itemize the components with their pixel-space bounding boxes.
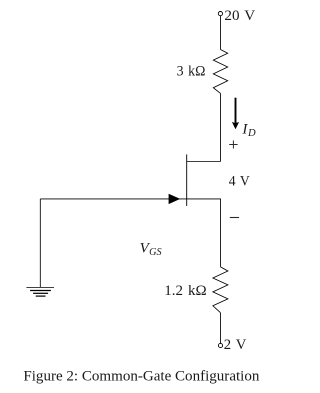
wire left drop bbox=[39, 199, 41, 287]
svg-text:3 kΩ: 3 kΩ bbox=[177, 64, 206, 80]
wire bottom bbox=[220, 313, 222, 344]
svg-text:20 V: 20 V bbox=[224, 8, 255, 24]
transistor Q1 bar bbox=[186, 154, 188, 206]
svg-text:Figure 2: Common-Gate Configur: Figure 2: Common-Gate Configuration bbox=[23, 368, 259, 384]
terminal 20 V bbox=[218, 12, 222, 16]
wire top rail bbox=[220, 16, 222, 50]
wire resistor to drain elbow bbox=[220, 93, 222, 161]
minus sign bbox=[230, 217, 239, 219]
resistor R2 1.2k bbox=[213, 267, 228, 313]
resistor R1 3k bbox=[213, 50, 227, 94]
gate arrow bbox=[169, 194, 181, 204]
wire drain elbow bbox=[187, 161, 221, 163]
svg-text:1.2 kΩ: 1.2 kΩ bbox=[164, 283, 206, 299]
wire gate bbox=[40, 198, 186, 200]
ground bbox=[26, 287, 54, 296]
svg-text:2 V: 2 V bbox=[224, 337, 247, 353]
current arrow ID bbox=[235, 98, 237, 124]
plus sign bbox=[229, 141, 237, 149]
svg-text:4 V: 4 V bbox=[229, 174, 250, 190]
wire source elbow bbox=[187, 199, 221, 267]
terminal 2 V bbox=[218, 343, 222, 347]
